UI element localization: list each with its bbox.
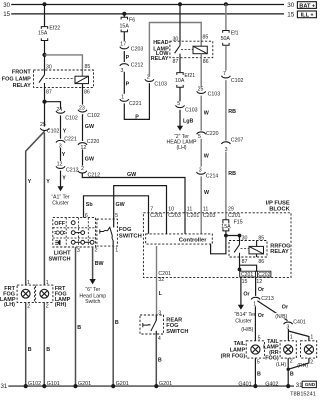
svg-text:12: 12: [57, 161, 63, 167]
svg-text:15: 15: [242, 279, 248, 285]
svg-text:GND: GND: [305, 382, 316, 387]
ground G201 light switch: [73, 384, 77, 388]
wire from bus30 to fuse Ef22: [44, 4, 46, 26]
wire GW 23C102 to C220: [82, 114, 84, 141]
wire L controller to C201 32 and rear fog switch: [156, 246, 158, 315]
node junction 87 branch: [42, 100, 46, 104]
wire Ef21 to C103: [179, 87, 181, 101]
svg-text:Ef1: Ef1: [231, 30, 239, 36]
rrfog relay switch contact: [234, 241, 239, 258]
connector C102 pin 7: [221, 76, 230, 78]
svg-text:BLOCK: BLOCK: [269, 207, 290, 213]
wire Or C202 12 to C213: [255, 278, 257, 296]
svg-text:1: 1: [46, 280, 49, 286]
switch FOG SWITCH box: [97, 219, 118, 246]
wire fog switch internal: [113, 219, 115, 227]
connector C207 pin 3: [221, 142, 230, 144]
node junction below F15: [224, 234, 228, 238]
relay RRFOG RELAY box: [229, 241, 267, 258]
wire head lamp relay 87 to fuse Ef21: [179, 58, 181, 73]
wire bus15 to fuse F6: [123, 14, 125, 17]
rrfog relay actuator dashed link: [241, 248, 250, 250]
node arrow to 6 Ter head lamp switch: [89, 279, 95, 284]
node arrow to B14 Ter Cluster: [238, 305, 244, 310]
svg-text:10: 10: [168, 206, 174, 212]
svg-text:FOG: FOG: [119, 227, 132, 233]
fuse Ef21 10A: [177, 73, 183, 88]
svg-text:LgB: LgB: [183, 119, 194, 125]
svg-text:15A: 15A: [120, 24, 130, 30]
svg-text:B: B: [290, 372, 294, 378]
controller box: [146, 234, 213, 244]
wire bus30 to head lamp relay pin 30: [179, 4, 181, 41]
svg-text:Ef22: Ef22: [49, 26, 60, 32]
wire W C103 to C220: [200, 96, 202, 131]
svg-text:LAMP: LAMP: [230, 347, 246, 353]
bus 31 ground: [8, 385, 294, 387]
svg-text:C212: C212: [131, 62, 144, 68]
svg-text:GW: GW: [116, 202, 126, 208]
svg-text:10A: 10A: [175, 78, 185, 84]
svg-text:C102: C102: [65, 115, 78, 121]
svg-text:C203: C203: [168, 213, 181, 219]
svg-text:C203: C203: [203, 213, 216, 219]
svg-text:ILL +: ILL +: [301, 13, 315, 19]
svg-text:50A: 50A: [221, 36, 231, 42]
wire rrfog 87 to C201 15: [239, 257, 241, 271]
connector C212 pin 2: [78, 171, 87, 173]
svg-text:5: 5: [115, 213, 118, 219]
svg-text:C401: C401: [293, 320, 306, 326]
svg-text:Cluster: Cluster: [52, 200, 69, 206]
svg-text:(N/B): (N/B): [275, 314, 287, 320]
svg-text:Or: Or: [258, 313, 264, 319]
svg-text:C103: C103: [185, 108, 198, 114]
svg-text:5: 5: [257, 359, 260, 365]
connector C102 pin 23: [78, 110, 87, 112]
lamp FRT FOG LAMP (RH): [36, 285, 53, 302]
svg-text:Or: Or: [282, 304, 288, 310]
svg-text:(LH): (LH): [176, 145, 186, 151]
svg-text:G201: G201: [159, 381, 172, 387]
svg-text:3: 3: [121, 68, 124, 74]
svg-text:C102: C102: [47, 128, 60, 134]
svg-text:2: 2: [290, 358, 293, 364]
node junction on bus 30: [43, 2, 47, 6]
svg-text:17: 17: [120, 42, 126, 48]
svg-text:C102: C102: [231, 78, 244, 84]
node junction at rrfog relay 30: [238, 234, 242, 238]
svg-text:RELAY: RELAY: [151, 56, 169, 62]
svg-text:C221: C221: [64, 137, 77, 143]
switch REAR FOG SWITCH box: [140, 315, 164, 334]
svg-text:G401: G401: [238, 381, 251, 387]
svg-text:B: B: [158, 357, 162, 363]
wire B fog switch 1 to G201: [112, 241, 114, 387]
svg-text:B: B: [257, 372, 261, 378]
wire branch to RH tail lamp: [288, 331, 309, 341]
relay FRONT FOG LAMP RELAY box: [34, 70, 94, 87]
svg-text:29: 29: [228, 206, 234, 212]
wire C401 to tail lamps: [287, 325, 289, 341]
wire relay 86 to connector: [82, 84, 84, 105]
svg-text:HEAD: HEAD: [153, 40, 168, 46]
svg-text:G102: G102: [28, 381, 41, 387]
svg-text:F6: F6: [129, 17, 135, 23]
connector C103 pin 2: [145, 79, 154, 81]
wire Y to cluster arrow: [60, 171, 62, 187]
ground G402: [286, 384, 290, 388]
svg-text:G402: G402: [265, 381, 278, 387]
wire GW C220 to C212: [82, 149, 84, 165]
svg-text:FOG LAMP: FOG LAMP: [2, 76, 31, 82]
svg-text:C201: C201: [241, 272, 253, 278]
svg-text:SWITCH: SWITCH: [119, 234, 142, 240]
wire grey C103 to head lamp relay coil 85: [149, 23, 201, 77]
svg-text:11: 11: [203, 206, 209, 212]
wire RB C207 to fuse block pin 29 C201: [225, 152, 227, 213]
svg-text:SWITCH: SWITCH: [48, 257, 70, 263]
svg-text:RELAY: RELAY: [270, 249, 289, 255]
svg-text:GW: GW: [127, 172, 137, 178]
node arrow to head lamp LH: [177, 126, 183, 131]
svg-text:B: B: [77, 325, 81, 331]
svg-text:FOG): FOG): [265, 355, 279, 361]
svg-text:C212: C212: [66, 168, 79, 174]
svg-text:BW: BW: [95, 261, 105, 267]
svg-text:Y: Y: [62, 152, 66, 158]
wire P C203 to C212: [123, 51, 125, 62]
front fog relay coil: [75, 76, 89, 83]
wire B light switch 3 to G201: [75, 247, 77, 386]
svg-text:RELAY: RELAY: [13, 83, 31, 89]
svg-text:(RR FOG): (RR FOG): [221, 354, 246, 360]
svg-text:25: 25: [198, 87, 204, 93]
svg-text:P: P: [126, 55, 130, 61]
svg-text:15: 15: [3, 11, 10, 18]
svg-text:3: 3: [77, 248, 80, 254]
svg-text:86: 86: [84, 89, 90, 95]
svg-text:23: 23: [79, 106, 85, 112]
svg-text:RB: RB: [228, 109, 236, 115]
wire LgB to head lamp: [179, 110, 181, 126]
svg-text:3: 3: [199, 167, 202, 173]
svg-text:BAT +: BAT +: [299, 3, 316, 9]
wire F15 to RRFOG relay 30 and controller: [225, 231, 227, 236]
svg-text:Or: Or: [258, 287, 264, 293]
I/P FUSE BLOCK box: [143, 213, 291, 278]
node junction below Ef22: [42, 53, 46, 57]
head lamp relay switch contact: [175, 41, 180, 58]
svg-text:12: 12: [81, 145, 87, 151]
connector C201 pin 15 box: [240, 271, 256, 277]
bus 15: [11, 13, 284, 15]
svg-text:3: 3: [158, 310, 161, 316]
svg-text:6: 6: [85, 213, 88, 219]
svg-text:2: 2: [310, 359, 313, 365]
rrfog relay coil: [249, 246, 264, 254]
rrfog relay 85 stub: [256, 241, 258, 247]
wire Y C221 to C212: [60, 148, 62, 161]
svg-text:C102: C102: [87, 113, 100, 119]
svg-text:30: 30: [46, 65, 52, 71]
svg-text:1: 1: [27, 280, 30, 286]
fog switch contact symbol: [100, 227, 113, 240]
svg-text:C201: C201: [228, 213, 241, 219]
fuse Ef1 50A: [223, 31, 229, 46]
svg-text:87: 87: [172, 59, 178, 65]
svg-text:1: 1: [290, 334, 293, 340]
ground G401: [253, 384, 257, 388]
svg-text:C201: C201: [150, 213, 163, 219]
svg-text:12: 12: [256, 279, 262, 285]
svg-text:C207: C207: [231, 138, 244, 144]
wire branch to 24 C102: [45, 102, 61, 109]
wire RH tail lamp join to G402: [288, 358, 309, 369]
wire link 87 to C202 12: [240, 265, 257, 272]
svg-text:C220: C220: [206, 131, 219, 137]
svg-text:“B14” Ter: “B14” Ter: [234, 312, 256, 318]
svg-text:T8B15241: T8B15241: [290, 391, 316, 397]
svg-text:86: 86: [258, 259, 264, 265]
wire B LH tail lamp to G402: [287, 358, 289, 386]
svg-text:87: 87: [242, 259, 248, 265]
svg-text:Sb: Sb: [86, 202, 94, 208]
wire P C221 to C103: [124, 83, 149, 119]
svg-text:C214: C214: [206, 173, 219, 179]
wire Y C102 to C221: [60, 115, 62, 138]
bus 30: [11, 4, 284, 6]
front fog relay actuator dashed link: [46, 77, 76, 79]
svg-text:Switch: Switch: [85, 299, 100, 305]
head lamp relay actuator dashed link: [181, 49, 193, 51]
svg-text:32: 32: [158, 277, 164, 283]
svg-text:87: 87: [46, 89, 52, 95]
svg-text:F15: F15: [234, 219, 243, 225]
switch LIGHT SWITCH box: [53, 218, 96, 247]
connector C221 pin 1: [120, 99, 129, 101]
wire GW to fuse block pin 11 C201: [82, 173, 185, 234]
svg-text:2: 2: [95, 247, 98, 253]
wire fuse Ef22 to relay pin 30: [44, 41, 46, 71]
svg-text:Y: Y: [46, 179, 50, 185]
svg-text:15A: 15A: [38, 31, 48, 37]
wire Or branch to C401: [257, 301, 287, 321]
svg-text:5: 5: [177, 101, 180, 107]
svg-text:C103: C103: [208, 92, 221, 98]
wire F6 to C203: [123, 32, 125, 41]
connector C212 pin 12: [56, 166, 65, 168]
connector C102 pin 25: [40, 128, 49, 130]
connector C102 pin 24: [56, 111, 65, 113]
svg-text:B: B: [28, 347, 32, 353]
light switch head contacts: [71, 240, 94, 244]
svg-text:C202: C202: [258, 272, 270, 278]
connector C103 pin 25: [197, 91, 206, 93]
wire Y to LH fog lamp: [26, 131, 45, 285]
wire W C220 to C214: [200, 139, 202, 167]
svg-text:(LH): (LH): [4, 302, 15, 308]
fuse Ef22 15A: [41, 27, 47, 41]
svg-text:85: 85: [258, 236, 264, 242]
svg-text:OFF: OFF: [54, 221, 65, 227]
connector C213 pin 1: [251, 297, 260, 299]
wire B LH fog lamp to G102: [25, 302, 27, 386]
svg-text:30: 30: [242, 236, 248, 242]
svg-text:86: 86: [203, 59, 209, 65]
svg-text:G201: G201: [116, 381, 129, 387]
wire P C212 to C221: [123, 72, 125, 94]
ground G201 fog switch: [111, 384, 115, 388]
light switch head icon: [55, 240, 60, 245]
light switch park contacts: [71, 231, 84, 235]
rrfog relay 86 stub: [256, 254, 258, 257]
connector C214 pin 3: [197, 172, 206, 174]
svg-text:85: 85: [85, 64, 91, 70]
svg-text:11: 11: [187, 206, 193, 212]
wire Y to RH fog lamp: [43, 133, 45, 286]
svg-text:1: 1: [121, 95, 124, 101]
svg-text:2: 2: [46, 303, 49, 309]
svg-text:(RH): (RH): [55, 302, 67, 308]
connector C221 pin 3: [56, 140, 65, 142]
light switch OFF contact: [71, 221, 75, 225]
connector C212 pin 3: [120, 64, 129, 66]
light switch park icon: [55, 231, 66, 234]
svg-text:Controller: Controller: [179, 238, 207, 244]
svg-text:Or: Or: [243, 292, 249, 298]
wire B RH fog lamp to G101: [43, 302, 45, 386]
wire Or C213 to tail lamp RR FOG: [254, 306, 256, 341]
front fog relay switch contact: [39, 70, 45, 87]
node GND: [302, 381, 316, 387]
svg-text:15: 15: [287, 12, 295, 19]
svg-text:7: 7: [150, 206, 153, 212]
wire Or C201 15 to cluster: [240, 278, 242, 306]
svg-text:P: P: [126, 82, 130, 88]
svg-text:15A: 15A: [221, 224, 231, 230]
svg-text:GW: GW: [85, 124, 95, 130]
svg-text:31: 31: [1, 383, 8, 390]
svg-text:“6” Ter: “6” Ter: [85, 287, 100, 293]
ground G201 rear fog switch: [154, 384, 158, 388]
svg-text:C220: C220: [87, 139, 100, 145]
ground G102: [24, 384, 28, 388]
svg-text:(LH): (LH): [276, 362, 286, 368]
svg-text:RB: RB: [228, 171, 236, 177]
connector C103 pin 5: [176, 105, 185, 107]
wire relay 87 down: [44, 87, 46, 126]
connector C220 pin 12: [78, 143, 87, 145]
svg-text:C203: C203: [131, 47, 144, 53]
svg-text:1: 1: [115, 247, 118, 253]
svg-text:C213: C213: [261, 296, 274, 302]
wire GW fog switch 5 to fuse block pin 10 C203: [114, 186, 167, 234]
svg-text:3: 3: [286, 324, 289, 330]
connector C220 pin 5: [197, 132, 206, 134]
svg-text:1: 1: [310, 334, 313, 340]
svg-text:G101: G101: [47, 381, 60, 387]
svg-text:85: 85: [203, 35, 209, 41]
rear fog switch contact symbol: [143, 315, 157, 334]
node ILL+: [297, 11, 316, 18]
svg-text:30: 30: [172, 36, 178, 42]
svg-text:GW: GW: [85, 157, 95, 163]
connector C202 pin 12 box: [257, 271, 271, 277]
svg-text:Cluster: Cluster: [235, 318, 252, 324]
node junction on bus 15: [122, 12, 126, 16]
svg-text:Y: Y: [63, 128, 67, 134]
fuse F6 15A: [121, 17, 127, 32]
svg-text:30: 30: [287, 2, 295, 9]
svg-text:Ef21: Ef21: [184, 73, 195, 79]
svg-text:2: 2: [27, 303, 30, 309]
node junction on bus 30 right: [224, 2, 228, 6]
wire bus30 to fuse Ef1: [225, 4, 227, 30]
wire B tail lamp to G401: [254, 358, 256, 386]
relay HEAD LAMP LOW RELAY box: [170, 41, 213, 58]
svg-text:B: B: [46, 347, 50, 353]
node arrow to A1 Ter Cluster: [57, 186, 63, 191]
wire RB C102 to C207: [225, 80, 227, 141]
wire grey head lamp relay 86 to C103: [200, 54, 202, 87]
svg-text:2: 2: [81, 166, 84, 172]
wire B rear fog switch to G201: [155, 334, 157, 386]
svg-text:C221: C221: [129, 101, 142, 107]
wire Sb light switch 6 to fuse block pin 7 C201: [84, 196, 149, 234]
svg-text:C103: C103: [154, 82, 167, 88]
svg-text:G201: G201: [78, 381, 91, 387]
wire W C214 to fuse block pin 11 C203: [200, 176, 202, 233]
svg-text:7: 7: [223, 71, 226, 77]
node junction tail lamp grounds: [287, 368, 290, 371]
head lamp relay coil: [193, 46, 207, 54]
svg-text:B: B: [115, 320, 119, 326]
svg-text:TAIL: TAIL: [234, 341, 246, 347]
wire grey to front fog relay coil 85: [45, 55, 83, 76]
svg-text:Y: Y: [62, 175, 66, 181]
connector C203 pin 17: [120, 47, 129, 49]
node BAT+: [297, 2, 316, 9]
svg-text:P: P: [135, 115, 139, 121]
wire Ef1 to C102: [225, 46, 227, 71]
svg-text:SWITCH: SWITCH: [166, 329, 188, 335]
svg-text:25: 25: [40, 122, 46, 128]
svg-text:FRONT: FRONT: [12, 69, 32, 75]
connector C401 pin 3: [284, 322, 293, 324]
svg-text:4: 4: [158, 336, 161, 342]
svg-text:C201: C201: [187, 213, 200, 219]
svg-text:(H/B): (H/B): [241, 327, 253, 333]
wire F15 junction hook to controller: [211, 236, 226, 254]
wire BW light switch 2 to head lamp switch: [92, 247, 94, 279]
svg-text:30: 30: [3, 2, 10, 9]
svg-text:Y: Y: [28, 179, 32, 185]
node junction on bus 30: [178, 2, 182, 6]
ground G101: [42, 384, 46, 388]
